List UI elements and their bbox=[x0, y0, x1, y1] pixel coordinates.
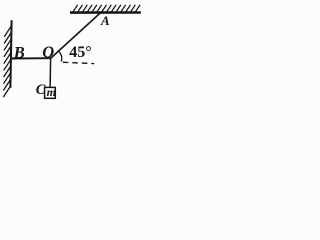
svg-text:O: O bbox=[42, 42, 54, 61]
string O-C bbox=[49, 58, 52, 87]
svg-text:m: m bbox=[47, 85, 56, 99]
ceiling line bbox=[70, 11, 141, 14]
angle arc bbox=[59, 51, 62, 61]
svg-text:45°: 45° bbox=[69, 44, 91, 61]
ceiling hatching bbox=[73, 5, 140, 12]
svg-text:B: B bbox=[13, 43, 25, 62]
dashed horizontal reference line bbox=[63, 62, 94, 63]
mass box bbox=[45, 87, 56, 98]
string O-A bbox=[50, 12, 101, 58]
rod B-O bbox=[11, 57, 51, 59]
svg-text:A: A bbox=[100, 13, 110, 28]
wall line bbox=[9, 20, 12, 88]
wall hatching bbox=[3, 26, 11, 97]
